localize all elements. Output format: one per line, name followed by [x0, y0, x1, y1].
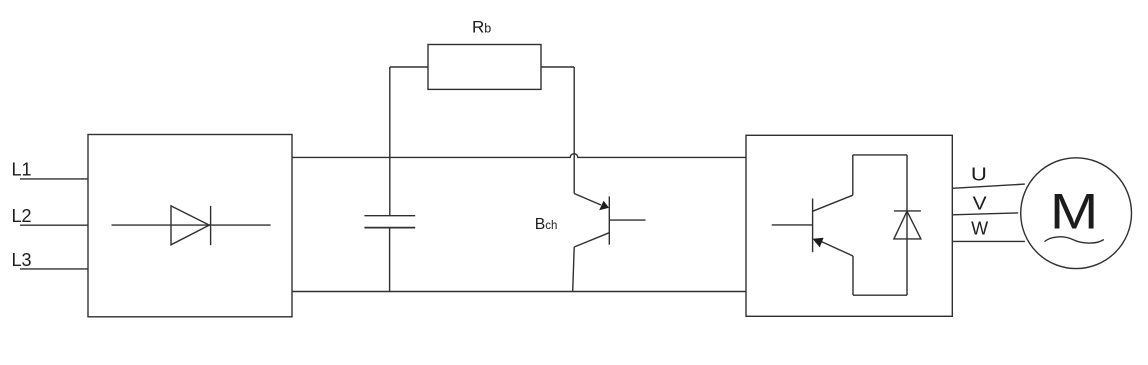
wire Bch emitter to DC- rail	[573, 247, 575, 292]
wire phase W	[952, 240, 1025, 242]
transistor inverter IGBT base wire	[772, 224, 813, 226]
transistor Bch base wire	[609, 219, 645, 221]
svg-text:L1: L1	[12, 160, 32, 180]
wire inverter loop right (diode branch)	[906, 155, 908, 295]
wire L2 input	[20, 224, 88, 226]
rectifier diode triangle	[171, 206, 209, 245]
wire Rb-left down to capacitor (crosses DC+ rail)	[389, 67, 391, 216]
transistor Bch collector diagonal	[574, 194, 601, 206]
motor M circle	[1021, 158, 1132, 269]
svg-text:Rb: Rb	[472, 18, 491, 37]
transistor inverter IGBT collector diagonal	[813, 195, 853, 211]
transistor inverter IGBT bar	[812, 199, 814, 253]
rectifier diode cathode bar	[210, 206, 212, 245]
wire capacitor to DC- rail	[389, 228, 391, 292]
rectifier block box	[88, 135, 292, 317]
wire phase U	[952, 184, 1025, 188]
capacitor C top plate	[364, 215, 415, 217]
motor AC wave symbol	[1045, 237, 1104, 243]
wire Rb left lead	[390, 66, 428, 68]
wire inverter IGBT collector vertical	[852, 155, 854, 195]
wire inverter loop bottom	[853, 294, 907, 296]
wire inverter loop top	[853, 154, 907, 156]
wire Rb-right down to chopper collector	[573, 67, 575, 194]
inverter block box	[746, 135, 952, 316]
svg-text:M: M	[1050, 184, 1099, 240]
wire L3 input	[20, 268, 88, 270]
svg-text:L2: L2	[12, 206, 32, 226]
svg-text:W: W	[971, 219, 988, 239]
diode inverter freewheel cathode bar	[894, 210, 921, 212]
wire Rb right lead	[541, 66, 574, 68]
wire DC- bottom rail	[292, 291, 746, 293]
transistor Bch emitter diagonal	[574, 233, 609, 247]
wire L1 input	[20, 178, 88, 180]
transistor Bch collector arrowhead	[599, 201, 609, 211]
wire DC+ top rail with hop over chopper wire	[292, 154, 746, 158]
transistor inverter IGBT emitter arrowhead	[813, 238, 824, 248]
resistor Rb	[428, 45, 541, 90]
diode inverter freewheel triangle	[894, 211, 921, 239]
svg-text:L3: L3	[12, 250, 32, 270]
wire inverter IGBT emitter vertical	[852, 256, 854, 295]
transistor inverter IGBT emitter diagonal	[822, 242, 854, 256]
svg-text:V: V	[973, 193, 987, 213]
svg-text:U: U	[971, 165, 987, 185]
transistor Bch bar	[608, 196, 610, 244]
capacitor C bottom plate	[364, 227, 415, 229]
svg-text:Bch: Bch	[535, 216, 558, 233]
wire phase V	[952, 213, 1018, 215]
rectifier diode axis wire	[112, 224, 271, 226]
